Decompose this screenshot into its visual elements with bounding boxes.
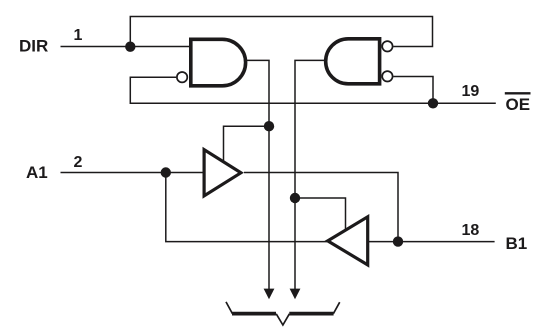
arrow to other channels (left) <box>264 289 275 300</box>
junction dot G1 output enable branch <box>264 121 274 131</box>
junction dot OE node <box>428 98 438 108</box>
wire DIR feedback to G2 upper input <box>130 17 432 47</box>
svg-text:OE: OE <box>506 95 531 114</box>
and-gate G2 (NOT DIR AND NOT OE, mirrored) <box>326 39 380 84</box>
buffer A-to-B (right-pointing) <box>204 150 241 196</box>
svg-text:A1: A1 <box>26 163 48 182</box>
wire enable branch to B-to-A buffer <box>295 198 346 229</box>
buffer B-to-A (left-pointing) <box>328 217 368 265</box>
bubble on G2 lower input <box>382 71 392 81</box>
wire G2 output down to other channels <box>295 60 326 297</box>
wire A-to-B buffer output to B1 node <box>244 173 398 242</box>
wire G1 output down to other channels <box>246 60 269 297</box>
bubble on G1 lower input <box>177 72 187 82</box>
bubble on G2 upper input <box>382 41 392 51</box>
svg-text:18: 18 <box>462 222 480 239</box>
svg-text:B1: B1 <box>506 234 528 253</box>
svg-text:2: 2 <box>74 154 83 171</box>
svg-text:1: 1 <box>74 27 83 44</box>
and-gate G1 (DIR AND NOT OE) <box>191 39 246 86</box>
junction dot DIR node <box>125 42 135 52</box>
wire B1 <box>366 241 495 243</box>
junction dot B1 node <box>393 236 403 246</box>
svg-text:DIR: DIR <box>19 37 48 56</box>
wire OE to G1 lower input <box>130 77 496 103</box>
junction dot A1 node <box>161 167 171 177</box>
arrow to other channels (right) <box>290 289 301 300</box>
svg-text:19: 19 <box>462 83 480 100</box>
wire DIR input <box>61 46 191 48</box>
wire A1 input <box>61 172 205 174</box>
wire G2 lower input from OE node <box>393 77 433 104</box>
wire enable branch to A-to-B buffer <box>224 126 270 161</box>
junction dot G2 output enable branch <box>290 193 300 203</box>
channel-continuation bracket <box>226 302 340 325</box>
wire A1 to B-to-A buffer output <box>166 173 327 242</box>
